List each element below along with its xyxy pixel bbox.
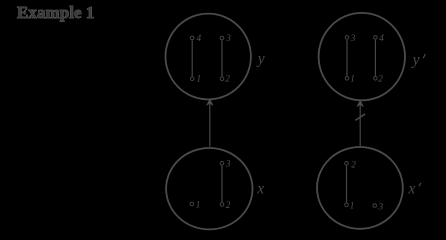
- svg-text:x: x: [256, 180, 264, 197]
- wire y right segment: [221, 40, 223, 76]
- wire y' left segment: [346, 40, 348, 76]
- svg-text:2: 2: [226, 200, 231, 210]
- node x dot 2: [220, 203, 224, 207]
- svg-text:Example 1: Example 1: [17, 3, 94, 22]
- circle y: [166, 14, 251, 100]
- svg-text:1: 1: [350, 201, 355, 211]
- svg-text:1: 1: [350, 73, 355, 83]
- svg-text:1: 1: [196, 200, 201, 210]
- node x dot 1: [190, 202, 194, 206]
- node y' dot 4: [374, 36, 378, 40]
- wire y' right segment: [374, 40, 376, 76]
- node y' dot 1: [345, 77, 349, 81]
- svg-text:3: 3: [350, 33, 356, 43]
- svg-text:3: 3: [225, 159, 231, 169]
- node x' dot 2: [345, 162, 349, 166]
- wire y left segment: [191, 40, 193, 76]
- wire arrow x' to y' with slash: [355, 100, 365, 147]
- svg-text:2: 2: [378, 73, 383, 83]
- svg-text:4: 4: [379, 33, 384, 43]
- svg-text:x: x: [407, 181, 415, 198]
- label x': [407, 181, 421, 198]
- svg-text:1: 1: [197, 74, 202, 84]
- circle y': [319, 13, 405, 100]
- svg-text:4: 4: [197, 33, 202, 43]
- svg-text:2: 2: [351, 159, 356, 169]
- wire x' segment: [346, 166, 348, 203]
- node y dot 2: [220, 77, 224, 81]
- node x dot 3: [220, 161, 224, 165]
- node x' dot 1: [345, 203, 349, 207]
- node y' dot 3: [345, 36, 349, 40]
- node y dot 1: [190, 77, 194, 81]
- node y' dot 2: [374, 77, 378, 81]
- node y dot 4: [190, 36, 194, 40]
- circle x: [166, 148, 252, 229]
- svg-text:3: 3: [378, 201, 384, 211]
- node y dot 3: [220, 36, 224, 40]
- wire arrow x to y: [207, 99, 214, 147]
- svg-text:y: y: [411, 52, 420, 69]
- circle x': [317, 147, 403, 229]
- label y': [411, 52, 426, 69]
- title "Example 1": [17, 3, 94, 22]
- svg-text:y: y: [256, 51, 265, 68]
- node x' dot 3: [373, 204, 377, 208]
- wire x segment: [221, 166, 223, 203]
- svg-text:3: 3: [225, 33, 231, 43]
- svg-text:2: 2: [225, 74, 230, 84]
